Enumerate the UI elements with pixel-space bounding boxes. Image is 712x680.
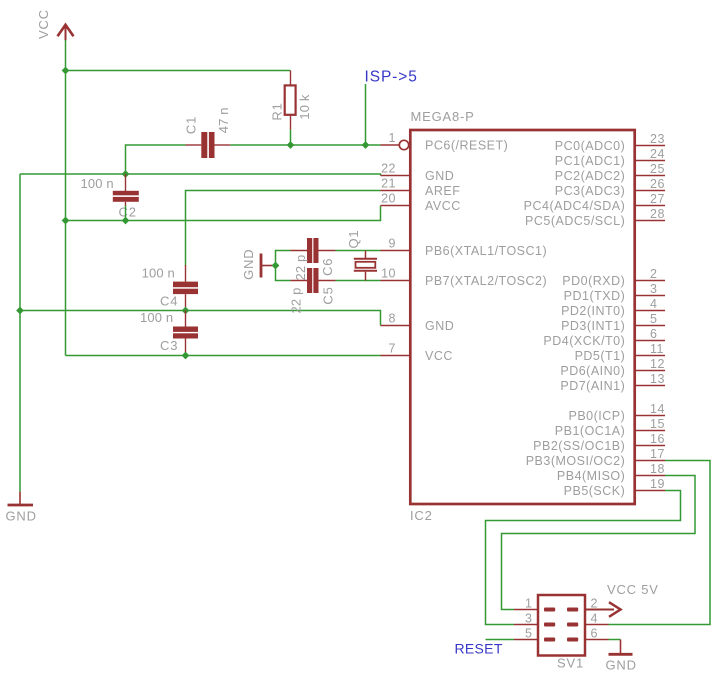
svg-text:PD5(T1): PD5(T1) (575, 349, 626, 363)
svg-text:PC2(ADC2): PC2(ADC2) (555, 169, 626, 183)
wire R1 bottom to RESET net (290, 130, 292, 145)
svg-text:21: 21 (381, 177, 396, 191)
svg-text:AREF: AREF (425, 184, 460, 198)
svg-text:10: 10 (381, 267, 396, 281)
pin 3 (SV1 left) (514, 612, 555, 627)
pin 2 (SV1 right) (567, 597, 609, 612)
capacitor C5 22p (289, 268, 336, 313)
svg-text:C6: C6 (320, 258, 335, 276)
node GND rail junction (16, 307, 24, 315)
svg-text:AVCC: AVCC (425, 199, 461, 213)
svg-text:2: 2 (591, 597, 598, 611)
pin 13 (PD7(AIN1)) (560, 372, 665, 393)
svg-text:7: 7 (389, 342, 396, 356)
svg-text:18: 18 (650, 462, 665, 476)
pin 4 (PD2(INT0)) (561, 297, 665, 318)
wire VCC junction to R1 top (66, 70, 291, 72)
svg-text:26: 26 (650, 177, 665, 191)
capacitor C3 100n (140, 310, 198, 356)
power VCC 5V (right arrow) (585, 582, 659, 617)
wire RESET to SV1 pin5 (486, 639, 515, 641)
svg-text:PD6(AIN0): PD6(AIN0) (560, 364, 625, 378)
node C2/AVCC junction (122, 217, 130, 225)
wire MISO pin18 to SV1 pin1 (502, 476, 696, 610)
svg-text:PC1(ADC1): PC1(ADC1) (555, 154, 626, 168)
svg-text:22 p: 22 p (289, 288, 304, 314)
svg-text:15: 15 (650, 417, 665, 431)
svg-text:22: 22 (381, 162, 396, 176)
pin 17 (PB3(MOSI/OC2)) (526, 447, 665, 468)
pin 2 (PD0(RXD)) (562, 267, 665, 288)
svg-text:6: 6 (650, 327, 657, 341)
svg-text:PC5(ADC5/SCL): PC5(ADC5/SCL) (525, 214, 625, 228)
op-amp U1 : IC2 MEGA8-P body (410, 130, 634, 504)
pin 27 (PC4(ADC4/SDA)) (524, 192, 665, 213)
capacitor C6 22p (291, 238, 336, 280)
svg-text:PC4(ADC4/SDA): PC4(ADC4/SDA) (524, 199, 626, 213)
svg-text:ISP->5: ISP->5 (365, 69, 418, 86)
svg-text:23: 23 (650, 132, 665, 146)
svg-text:47 n: 47 n (216, 107, 231, 133)
pin 1 inversion circle (399, 140, 408, 149)
capacitor C4 100n (142, 265, 198, 311)
pin 16 (PB2(SS/OC1B)) (533, 432, 665, 453)
node crystal GND junction (272, 262, 280, 270)
svg-text:14: 14 (650, 402, 665, 416)
svg-text:GND: GND (6, 509, 37, 524)
svg-text:5: 5 (525, 627, 532, 641)
pin 15 (PB1(OC1A)) (555, 417, 665, 438)
svg-text:GND: GND (606, 658, 637, 673)
wire GND net (pin 22) (20, 174, 381, 176)
svg-text:20: 20 (381, 192, 396, 206)
power VCC (top-left) (36, 9, 74, 40)
wire C1 left to GND net corner (126, 145, 186, 174)
pin 10 (PB7(XTAL2/TOSC2)) (381, 267, 548, 289)
node C4/C3 GND junction (182, 307, 190, 315)
pin 6 (PD4(XCK/T0)) (543, 327, 665, 348)
svg-text:PB4(MISO): PB4(MISO) (557, 469, 625, 483)
capacitor C1 47n (184, 107, 232, 158)
svg-text:C1: C1 (184, 116, 199, 134)
node GND/C2 junction (122, 170, 130, 178)
svg-text:C2: C2 (119, 205, 137, 220)
wire VCC rail down left side (65, 71, 67, 356)
svg-text:2: 2 (650, 267, 657, 281)
svg-text:4: 4 (650, 297, 657, 311)
wire ISP->5 drop (365, 84, 367, 145)
svg-text:VCC: VCC (36, 9, 51, 39)
svg-text:PD2(INT0): PD2(INT0) (561, 304, 625, 318)
svg-text:PB3(MOSI/OC2): PB3(MOSI/OC2) (526, 454, 626, 468)
pin 9 (PB6(XTAL1/TOSC1)) (381, 237, 548, 259)
pin 12 (PD6(AIN0)) (560, 357, 665, 378)
capacitor C2 100n (81, 174, 139, 220)
svg-text:PB2(SS/OC1B): PB2(SS/OC1B) (533, 439, 625, 453)
crystal Q1 (346, 230, 377, 281)
svg-text:IC2: IC2 (410, 508, 433, 523)
wire left GND rail (19, 174, 21, 492)
pin 23 (PC0(ADC0)) (555, 132, 665, 153)
svg-text:100 n: 100 n (81, 176, 114, 191)
pin 18 (PB4(MISO)) (557, 462, 665, 483)
pin 26 (PC3(ADC3)) (555, 177, 665, 198)
svg-text:C3: C3 (160, 338, 178, 353)
svg-text:GND: GND (241, 249, 256, 280)
svg-text:13: 13 (650, 372, 665, 386)
svg-text:C5: C5 (321, 286, 336, 304)
ground GND (crystal) (241, 249, 273, 280)
svg-text:PC0(ADC0): PC0(ADC0) (555, 139, 626, 153)
ground GND (bottom left) (6, 492, 37, 524)
wire AREF net (pin 21) to C4 (186, 191, 381, 266)
svg-text:VCC 5V: VCC 5V (607, 582, 659, 597)
pin 1 (PC6(/RESET)) (389, 131, 509, 153)
svg-text:PD1(TXD): PD1(TXD) (564, 289, 626, 303)
svg-text:PB6(XTAL1/TOSC1): PB6(XTAL1/TOSC1) (425, 244, 547, 258)
svg-text:24: 24 (650, 147, 665, 161)
svg-text:R1: R1 (270, 102, 285, 120)
node VCC junction at R1 branch (62, 67, 70, 75)
svg-text:PD7(AIN1): PD7(AIN1) (560, 379, 625, 393)
svg-text:12: 12 (650, 357, 665, 371)
wire MOSI pin17 to SV1 pin4 (609, 461, 711, 625)
svg-text:PD4(XCK/T0): PD4(XCK/T0) (543, 334, 625, 348)
pin 20 (AVCC) (381, 192, 461, 214)
svg-text:RESET: RESET (455, 641, 503, 657)
svg-text:9: 9 (389, 237, 396, 251)
pin 21 (AREF) (381, 177, 461, 199)
wire VCC net (pin 7) (66, 355, 381, 357)
ground GND (SV1) (606, 640, 637, 673)
pin 24 (PC1(ADC1)) (555, 147, 665, 168)
svg-text:PB1(OC1A): PB1(OC1A) (555, 424, 626, 438)
pin 5 (SV1 left) (514, 627, 555, 642)
wire SCK pin19 to SV1 pin3 (486, 491, 681, 625)
wire AVCC net (pin 20) (66, 206, 381, 221)
pin 1 stub (381, 144, 399, 146)
pin 28 (PC5(ADC5/SCL)) (525, 207, 665, 228)
svg-text:Q1: Q1 (346, 230, 361, 249)
svg-text:11: 11 (650, 342, 664, 356)
pin 6 (SV1 right) (567, 627, 609, 642)
svg-text:100 n: 100 n (140, 310, 173, 325)
svg-text:8: 8 (389, 312, 396, 326)
svg-text:28: 28 (650, 207, 665, 221)
wire GND junction to C6/C5 (276, 251, 291, 281)
node C3/VCC junction (182, 352, 190, 360)
node R1/RESET junction (287, 141, 295, 149)
svg-text:PC3(ADC3): PC3(ADC3) (555, 184, 626, 198)
svg-text:GND: GND (425, 319, 454, 333)
svg-text:1: 1 (389, 131, 396, 145)
pin 7 (VCC) (381, 342, 453, 364)
svg-text:22 p: 22 p (293, 255, 308, 281)
pin 14 (PB0(ICP)) (569, 402, 665, 423)
connector SV1 body (538, 595, 585, 656)
wire GND net (pin 8) (20, 311, 381, 326)
svg-text:16: 16 (650, 432, 665, 446)
svg-text:C4: C4 (160, 294, 178, 309)
svg-text:PD0(RXD): PD0(RXD) (562, 274, 625, 288)
svg-text:PD3(INT1): PD3(INT1) (561, 319, 625, 333)
svg-text:17: 17 (650, 447, 665, 461)
wire pin 10 net (336, 280, 381, 282)
svg-text:5: 5 (650, 312, 657, 326)
svg-text:PB7(XTAL2/TOSC2): PB7(XTAL2/TOSC2) (425, 274, 547, 288)
svg-text:1: 1 (525, 597, 532, 611)
svg-text:PC6(/RESET): PC6(/RESET) (425, 139, 508, 153)
resistor R1 10k (270, 71, 313, 130)
svg-text:SV1: SV1 (557, 656, 584, 671)
wire RESET net to IC pin 1 (230, 144, 380, 146)
svg-text:GND: GND (425, 169, 454, 183)
svg-text:100 n: 100 n (142, 266, 175, 281)
wire C2 bottom to AVCC net (125, 206, 127, 221)
pin 19 (PB5(SCK)) (564, 477, 665, 498)
svg-text:PB0(ICP): PB0(ICP) (569, 409, 626, 423)
svg-text:27: 27 (650, 192, 665, 206)
pin 22 (GND) (381, 162, 455, 184)
svg-text:3: 3 (525, 612, 532, 626)
node ISP/RESET junction (362, 141, 370, 149)
wire VCC arrow to junction (65, 40, 67, 71)
svg-text:VCC: VCC (425, 349, 453, 363)
node VCC rail/AVCC junction (62, 217, 70, 225)
pin 8 (GND) (381, 312, 455, 334)
svg-text:6: 6 (591, 627, 598, 641)
svg-text:3: 3 (650, 282, 657, 296)
svg-text:10 k: 10 k (297, 94, 312, 120)
wire pin 9 net (336, 250, 381, 252)
svg-text:MEGA8-P: MEGA8-P (411, 109, 475, 124)
pin 3 (PD1(TXD)) (564, 282, 665, 303)
wire SV1 pin6 to GND (609, 639, 621, 641)
svg-text:25: 25 (650, 162, 665, 176)
pin 11 (PD5(T1)) (575, 342, 665, 363)
pin 25 (PC2(ADC2)) (555, 162, 665, 183)
svg-text:19: 19 (650, 477, 665, 491)
svg-text:4: 4 (591, 612, 598, 626)
pin 1 (SV1 left) (514, 597, 555, 612)
pin 4 (SV1 right) (567, 612, 609, 627)
svg-text:PB5(SCK): PB5(SCK) (564, 484, 626, 498)
pin 5 (PD3(INT1)) (561, 312, 665, 333)
